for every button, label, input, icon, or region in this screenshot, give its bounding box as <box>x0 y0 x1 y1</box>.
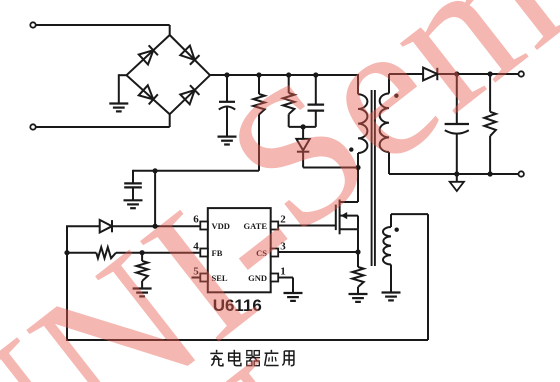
pin label FB <box>212 248 223 258</box>
bridge diode D2 (top to right) <box>180 46 199 65</box>
AC input terminal J1 (line) <box>30 22 169 36</box>
wire R1 to VDD node <box>133 170 259 172</box>
wire secondary top <box>389 74 423 94</box>
aux polarity dot <box>395 228 399 232</box>
node startup junction <box>153 168 158 173</box>
wire GND pin <box>278 278 293 294</box>
output terminal - <box>519 171 524 176</box>
pin number 3 <box>280 241 286 253</box>
capacitor C2 (VDD) <box>124 170 142 201</box>
node bus-C3 <box>313 72 318 77</box>
secondary polarity dot <box>394 94 398 98</box>
wire HV bus <box>210 74 358 76</box>
node CS <box>355 249 360 254</box>
U6116 part label <box>213 296 262 315</box>
wire SEL stub <box>192 277 201 279</box>
wire left feedback vertical <box>66 226 68 341</box>
pin 2 GATE box <box>271 222 279 230</box>
node VDD junction <box>153 224 158 229</box>
resistor R8 (current sense) <box>352 267 363 294</box>
wire CS <box>278 251 358 253</box>
diode D5 (snubber clamp) <box>296 127 309 168</box>
diode D7 (VDD rectifier) <box>100 220 201 233</box>
ground (FB divider) <box>133 289 152 297</box>
node drain-snubber <box>355 165 360 170</box>
ground (bridge negative) <box>109 104 128 112</box>
capacitor C4 (output, polarized) <box>445 74 469 174</box>
wire GATE <box>278 225 336 227</box>
bridge diode D1 (left to top) <box>139 45 158 64</box>
node bus-R1 <box>256 72 261 77</box>
transformer T1 aux winding <box>383 227 391 265</box>
ground (sense resistor) <box>349 294 368 302</box>
output terminal + <box>519 71 524 76</box>
pin number 4 <box>193 241 199 253</box>
pin label CS <box>256 248 267 258</box>
bridge arm wire top-right <box>170 35 210 75</box>
wire FB row left <box>67 252 96 254</box>
pin number 2 <box>280 214 286 226</box>
ground (aux winding) <box>382 293 401 301</box>
pin 4 FB box <box>200 249 208 257</box>
wire D5 to drain node <box>303 167 358 169</box>
wire snubber join <box>289 126 316 128</box>
resistor R7 (feedback lower) <box>136 253 147 289</box>
watermark UNI- part <box>0 127 345 382</box>
diode D6 (output rectifier) <box>423 68 518 81</box>
primary polarity dot <box>349 147 353 151</box>
wire aux feedback vertical <box>427 214 429 340</box>
resistor R1 (startup) <box>253 75 264 171</box>
wire bottom rail <box>67 339 428 341</box>
wire output return rail <box>389 152 519 174</box>
wire primary to MOSFET drain <box>357 153 359 202</box>
bridge diode D4 (bottom to right) <box>180 85 199 104</box>
node output-R5 <box>488 71 493 76</box>
ground (C2) <box>124 200 143 208</box>
node FB-left <box>64 250 69 255</box>
capacitor C3 (snubber) <box>308 75 325 127</box>
transformer T1 secondary winding <box>380 94 389 153</box>
wire junction down to VDD pin <box>154 171 156 226</box>
pin 6 VDD box <box>200 222 208 230</box>
wire bridge negative to ground <box>119 74 127 103</box>
wire FB row right <box>116 252 200 254</box>
bridge arm wire left-bottom <box>127 75 170 114</box>
earth ground (output) <box>450 175 464 191</box>
resistor R6 (feedback upper) <box>96 247 116 258</box>
IC U1 U6116 controller body <box>208 208 271 292</box>
watermark Semi part <box>188 0 560 273</box>
ground (C1) <box>218 137 237 145</box>
node return-R5 <box>488 171 493 176</box>
wire aux top <box>391 214 428 227</box>
node snubber <box>301 124 306 129</box>
caption text 充电器应用 (charger application) <box>210 350 294 366</box>
node bus-R2 <box>286 72 291 77</box>
resistor R2 (snubber) <box>283 75 294 127</box>
capacitor C1 (bulk, polarized) <box>219 75 235 137</box>
node FB divider <box>140 250 145 255</box>
bridge arm wire bottom-right <box>170 75 210 114</box>
bridge diode D3 (left to bottom) <box>139 85 158 104</box>
wire VDD row left <box>66 225 100 227</box>
wire bus to primary <box>357 74 358 94</box>
pin 3 CS box <box>271 249 279 257</box>
pin 1 GND box <box>271 274 279 282</box>
AC input terminal J2 (neutral) <box>30 113 169 130</box>
wire source down <box>357 229 359 267</box>
bridge arm wire left-top <box>127 35 170 75</box>
pin label SEL <box>212 273 228 283</box>
wire aux bottom <box>390 265 392 293</box>
node output-C4 <box>454 71 459 76</box>
pin number 1 <box>280 266 286 278</box>
ground (IC GND) <box>284 293 303 301</box>
pin 5 SEL box <box>200 274 208 282</box>
transformer core <box>372 90 375 266</box>
node return-C4 <box>454 171 459 176</box>
transformer T1 primary winding <box>358 94 367 153</box>
pin number 6 <box>193 214 199 226</box>
pin label GATE <box>244 221 268 231</box>
pin label VDD <box>212 221 230 231</box>
pin number 5 <box>193 266 199 278</box>
watermark tile 2 fragment U <box>121 319 365 382</box>
transistor Q1 (power MOSFET) <box>336 200 358 235</box>
resistor R5 (load) <box>484 74 496 174</box>
node bus-C1 <box>224 72 229 77</box>
pin label GND <box>248 273 267 283</box>
